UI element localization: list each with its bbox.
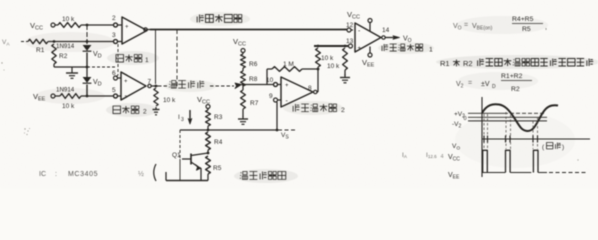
svg-text:+: + bbox=[125, 25, 129, 31]
svg-text:+: + bbox=[124, 79, 128, 85]
svg-text:Q1: Q1 bbox=[172, 152, 181, 159]
svg-text:R4: R4 bbox=[214, 139, 223, 146]
svg-text:+: + bbox=[285, 83, 289, 89]
svg-text:10 k: 10 k bbox=[62, 103, 75, 110]
svg-text:R2: R2 bbox=[463, 59, 473, 68]
svg-text:13: 13 bbox=[346, 38, 354, 45]
svg-text:1 M: 1 M bbox=[283, 61, 294, 68]
svg-text:0: 0 bbox=[464, 116, 467, 122]
svg-text:2: 2 bbox=[143, 109, 147, 116]
svg-text:D: D bbox=[492, 84, 496, 90]
svg-text:R7: R7 bbox=[250, 100, 259, 107]
svg-text:=: = bbox=[468, 80, 472, 87]
svg-text:1: 1 bbox=[145, 57, 149, 64]
svg-text:10 k: 10 k bbox=[321, 55, 334, 62]
svg-text:=: = bbox=[464, 22, 468, 29]
svg-text:12: 12 bbox=[346, 22, 354, 29]
svg-text::: : bbox=[55, 171, 57, 178]
svg-text:1: 1 bbox=[429, 47, 433, 54]
svg-text:I: I bbox=[178, 114, 180, 121]
svg-text:R2: R2 bbox=[511, 86, 520, 93]
svg-text:R3: R3 bbox=[214, 114, 223, 121]
svg-text:): ) bbox=[562, 144, 564, 151]
svg-text:MC3405: MC3405 bbox=[68, 171, 98, 178]
svg-text:2: 2 bbox=[341, 107, 345, 114]
svg-text:R6: R6 bbox=[249, 61, 258, 68]
svg-text:IC: IC bbox=[39, 171, 46, 178]
svg-text:R2: R2 bbox=[59, 53, 68, 60]
svg-text:10 k: 10 k bbox=[163, 97, 176, 104]
svg-text:3: 3 bbox=[181, 117, 184, 123]
svg-text:10 k: 10 k bbox=[62, 16, 75, 23]
svg-text:5: 5 bbox=[112, 87, 116, 94]
svg-text:R5: R5 bbox=[213, 165, 222, 172]
svg-text:1N914: 1N914 bbox=[56, 43, 75, 50]
svg-text:2: 2 bbox=[112, 15, 116, 22]
svg-text:,: , bbox=[545, 24, 547, 31]
svg-text:R8: R8 bbox=[249, 76, 258, 83]
svg-text:R5: R5 bbox=[522, 26, 531, 33]
svg-text:R1: R1 bbox=[36, 47, 45, 54]
svg-text:3: 3 bbox=[112, 32, 116, 39]
svg-text:R4+R5: R4+R5 bbox=[512, 16, 534, 23]
svg-text:½: ½ bbox=[138, 170, 144, 178]
svg-text:4: 4 bbox=[441, 154, 444, 160]
svg-text:8: 8 bbox=[308, 85, 312, 92]
svg-text:±V: ±V bbox=[481, 81, 490, 88]
svg-text:9: 9 bbox=[269, 93, 273, 100]
svg-text:14: 14 bbox=[382, 27, 390, 34]
svg-text:6: 6 bbox=[112, 70, 116, 77]
svg-text:R1: R1 bbox=[440, 59, 450, 68]
svg-text:R1+R2: R1+R2 bbox=[501, 73, 523, 80]
svg-text:+: + bbox=[358, 46, 362, 52]
svg-text:1N914: 1N914 bbox=[56, 87, 75, 94]
svg-text:10 k: 10 k bbox=[327, 63, 340, 70]
